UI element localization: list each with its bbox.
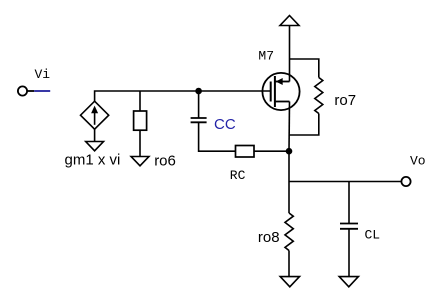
wire ro7 bottom branch: [290, 114, 319, 136]
wire CC bottom to RC: [199, 122, 236, 151]
svg-text:CC: CC: [214, 116, 236, 133]
wire ro6 bottom: [139, 130, 141, 156]
wire output horizontal: [289, 181, 401, 183]
resistor RC: [236, 146, 255, 158]
svg-text:RC: RC: [230, 168, 246, 183]
wire CL bottom: [348, 229, 350, 277]
transistor M7: [262, 73, 299, 110]
svg-text:Vo: Vo: [410, 154, 426, 169]
wire node down: [288, 151, 290, 213]
wire Vi stub: [27, 90, 34, 92]
ground (CL): [339, 277, 358, 287]
capacitor CL: [340, 224, 358, 229]
capacitor CC: [191, 118, 207, 122]
terminal Vi: [18, 86, 27, 95]
node output junction: [286, 148, 293, 155]
wire CL tap: [348, 182, 350, 224]
ground (ro6): [131, 157, 149, 166]
wire ro6 tap: [139, 91, 141, 111]
svg-text:ro8: ro8: [258, 229, 280, 246]
resistor ro6: [134, 111, 147, 130]
ground (gm1): [86, 142, 104, 151]
svg-text:CL: CL: [365, 228, 381, 243]
ground (ro8): [280, 277, 299, 287]
wire top bus: [95, 91, 271, 101]
svg-text:Vi: Vi: [35, 67, 51, 82]
wire RC to output node: [254, 150, 289, 152]
wire CC top: [198, 91, 200, 118]
wire ro7 top branch: [290, 59, 319, 78]
power VDD: [280, 16, 299, 26]
wire ro8 bottom: [288, 251, 290, 277]
svg-text:ro7: ro7: [334, 92, 356, 109]
resistor ro7: [315, 78, 323, 114]
resistor ro8: [285, 213, 293, 251]
wire VDD to drain: [289, 26, 291, 82]
svg-text:ro6: ro6: [154, 153, 176, 170]
wire source down to node: [288, 102, 291, 152]
svg-text:M7: M7: [258, 49, 274, 64]
node junction (gate bus / CC): [195, 88, 202, 95]
wire Vi net (blue): [34, 90, 50, 92]
svg-text:gm1 x vi: gm1 x vi: [65, 152, 121, 169]
current source gm1 x vi: [81, 101, 109, 141]
terminal Vo: [401, 177, 410, 186]
